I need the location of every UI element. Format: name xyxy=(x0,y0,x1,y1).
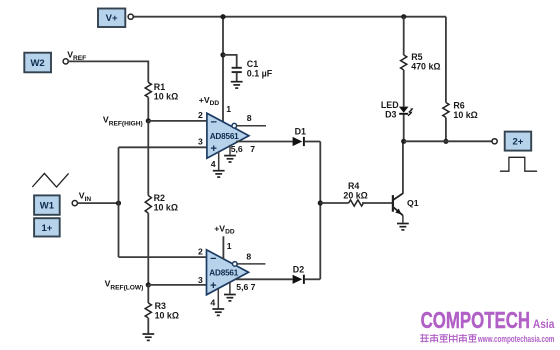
svg-text:Asia: Asia xyxy=(533,319,555,331)
node R6 junction xyxy=(443,139,448,144)
diode D2 xyxy=(293,264,305,284)
wire R5 to LED xyxy=(403,70,405,107)
logo COMPOTECH xyxy=(421,307,555,333)
svg-text:0.1 µF: 0.1 µF xyxy=(247,68,273,78)
wire U2 pin7 output xyxy=(236,278,293,280)
transistor Q1 xyxy=(393,193,419,215)
svg-text:7: 7 xyxy=(250,144,255,154)
svg-text:3: 3 xyxy=(198,275,203,285)
svg-text:470 kΩ: 470 kΩ xyxy=(411,61,440,71)
wire divider middle xyxy=(147,121,149,196)
wire VREF(HIGH) to op-amp U1 pin2 xyxy=(148,120,207,122)
node rail/branch junction xyxy=(220,14,225,19)
pin 5,6 ground (U1) xyxy=(224,144,255,162)
pin 8 stub (U1) xyxy=(237,113,266,126)
node R4 junction xyxy=(318,200,323,205)
node VREF(HIGH) xyxy=(103,114,151,127)
svg-text:8: 8 xyxy=(247,113,252,123)
waveform icon triangle wave xyxy=(32,173,68,187)
svg-text:3: 3 xyxy=(198,137,203,147)
svg-text:D2: D2 xyxy=(293,264,304,274)
wire output xyxy=(404,140,492,142)
svg-text:4: 4 xyxy=(210,297,215,307)
node VIN xyxy=(72,190,91,205)
wire top rail V+ xyxy=(134,16,446,18)
wire Q1 emitter to ground xyxy=(402,215,404,222)
wire U1 pin7 output xyxy=(236,141,293,143)
svg-text:−: − xyxy=(210,253,216,265)
svg-text:2+: 2+ xyxy=(512,137,523,148)
resistor R4 xyxy=(343,181,367,206)
wire D1/D2 vertical xyxy=(319,142,321,280)
wire VREF(LOW) to R3 xyxy=(147,285,149,303)
svg-text:2: 2 xyxy=(198,247,203,257)
svg-text:10 kΩ: 10 kΩ xyxy=(155,311,179,321)
svg-text:2: 2 xyxy=(198,110,203,120)
terminal W1 xyxy=(34,195,60,214)
wire Q1 collector up xyxy=(402,141,404,193)
svg-text:1: 1 xyxy=(226,104,231,114)
node VIN junction xyxy=(116,201,121,206)
svg-text:+: + xyxy=(211,143,217,155)
ground (Q1) xyxy=(397,224,409,230)
wire R3 to ground xyxy=(147,318,149,333)
wire LED to output node xyxy=(403,115,405,142)
capacitor C1 xyxy=(232,59,273,78)
pin 4 ground (U1) xyxy=(211,152,225,178)
svg-text:W1: W1 xyxy=(40,201,55,212)
pin 8 stub (U2) xyxy=(237,251,265,264)
svg-text:1: 1 xyxy=(227,241,232,251)
svg-text:V+: V+ xyxy=(106,13,118,24)
terminal 2+ xyxy=(505,132,532,151)
wire +VDD stub to U2 pin1 xyxy=(222,236,224,259)
op-amp U1 AD8561 xyxy=(207,113,249,158)
svg-text:D1: D1 xyxy=(295,126,306,136)
node LED/collector junction xyxy=(401,139,406,144)
ground (R3) xyxy=(142,334,154,340)
terminal W2 xyxy=(24,53,51,73)
wire VREF to divider top xyxy=(68,61,148,82)
wire R2 to VREF(LOW) xyxy=(147,213,149,285)
diode D1 xyxy=(293,126,306,146)
svg-text:5,6: 5,6 xyxy=(231,144,243,154)
node VREF(LOW) xyxy=(105,279,151,292)
node rail/R5 junction xyxy=(401,14,406,19)
resistor R3 xyxy=(145,301,179,320)
wire rail to R5 xyxy=(403,17,405,55)
svg-text:1+: 1+ xyxy=(41,223,52,234)
resistor R5 xyxy=(401,52,441,71)
LED D3 xyxy=(381,100,414,119)
wire R6 to output node xyxy=(445,118,447,142)
terminal V+ xyxy=(98,9,133,28)
pin 4 ground (U2) xyxy=(210,288,224,315)
terminal 1+ xyxy=(34,218,60,236)
op-amp U2 AD8561 xyxy=(207,250,249,295)
wire rail right corner to R6 xyxy=(445,17,447,103)
wire VIN bus vertical xyxy=(118,147,120,257)
svg-text:10 kΩ: 10 kΩ xyxy=(154,202,178,212)
svg-text:AD8561: AD8561 xyxy=(209,268,238,277)
wire VREF(LOW) to op-amp U2 pin3 xyxy=(148,284,206,286)
svg-text:W2: W2 xyxy=(30,58,44,69)
svg-text:7: 7 xyxy=(251,282,256,292)
svg-text:8: 8 xyxy=(246,251,251,261)
wire R4 to Q1 base xyxy=(362,202,392,204)
wire R1 to VREF(HIGH) xyxy=(147,97,149,121)
wire V+ branch to C1 and U1 pin1 xyxy=(222,17,224,123)
wire C1 branch xyxy=(223,55,237,67)
svg-text:4: 4 xyxy=(211,159,216,169)
resistor R1 xyxy=(145,82,178,101)
wire D1 to corner xyxy=(305,141,321,143)
wire VIN to bus xyxy=(77,202,118,204)
svg-text:AD8561: AD8561 xyxy=(210,132,239,141)
svg-text:D3: D3 xyxy=(385,110,396,120)
wire bus to U2 pin2 xyxy=(119,256,207,258)
wire D2 to corner xyxy=(305,278,321,280)
wire C1 to ground xyxy=(236,73,238,82)
svg-text:Q1: Q1 xyxy=(407,198,419,208)
node VREF xyxy=(63,50,86,65)
wire junction to R4 xyxy=(320,202,348,204)
svg-text:www.compotechasia.com: www.compotechasia.com xyxy=(477,334,554,344)
resistor R6 xyxy=(443,100,478,119)
waveform icon square wave xyxy=(500,157,537,171)
node C1 junction xyxy=(220,52,225,57)
svg-text:10 kΩ: 10 kΩ xyxy=(154,92,178,102)
pin 5,6 ground (U2) xyxy=(224,282,256,301)
node output terminal xyxy=(492,139,497,144)
svg-text:−: − xyxy=(211,117,217,129)
logo tagline xyxy=(420,334,554,344)
svg-text:20 kΩ: 20 kΩ xyxy=(343,191,367,201)
svg-text:10 kΩ: 10 kΩ xyxy=(453,110,477,120)
ground (C1) xyxy=(231,82,243,88)
svg-text:R2: R2 xyxy=(154,193,165,203)
svg-text:COMPOTECH: COMPOTECH xyxy=(421,307,530,333)
wire bus to U1 pin3 xyxy=(119,146,207,148)
svg-text:5,6: 5,6 xyxy=(236,282,248,292)
svg-text:+: + xyxy=(210,280,216,292)
resistor R2 xyxy=(145,193,178,213)
